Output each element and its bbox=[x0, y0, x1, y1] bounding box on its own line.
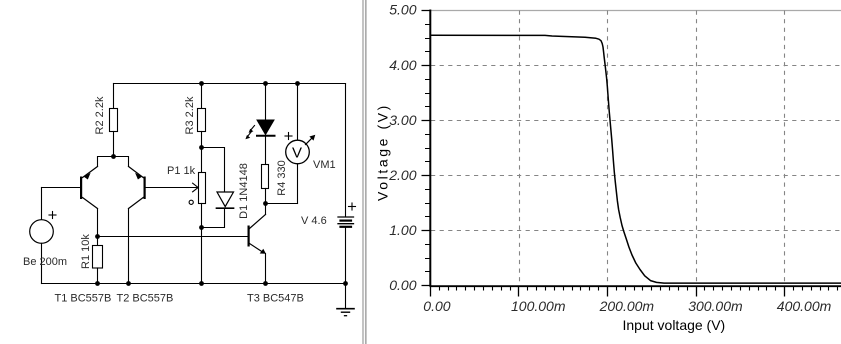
wire R2 bottom lead bbox=[113, 132, 115, 157]
x tick labels bbox=[423, 298, 831, 314]
svg-text:P1 1k: P1 1k bbox=[167, 165, 196, 177]
wire emitter link bbox=[98, 157, 129, 167]
svg-text:400.00m: 400.00m bbox=[777, 298, 832, 314]
svg-text:Voltage (V): Voltage (V) bbox=[375, 103, 391, 201]
transistor T1 bbox=[80, 167, 98, 209]
battery V 4.6 bbox=[301, 84, 356, 284]
ground bbox=[337, 284, 354, 316]
node P1/D1 bottom bbox=[199, 225, 204, 230]
node rail T2 collector bbox=[126, 281, 131, 286]
svg-text:VM1: VM1 bbox=[313, 159, 336, 171]
svg-text:0.00: 0.00 bbox=[389, 277, 416, 293]
LED D2 bbox=[245, 84, 274, 140]
transfer curve bbox=[431, 35, 841, 283]
panel divider bbox=[362, 0, 364, 344]
node R3 bottom / P1 / D1 bbox=[199, 145, 204, 150]
dashed vertical gridlines 100m..400m bbox=[520, 11, 785, 286]
svg-text:2.00: 2.00 bbox=[388, 167, 416, 183]
resistor R4 bbox=[262, 136, 289, 204]
potentiometer P1 bbox=[167, 148, 206, 228]
svg-text:R3 2.2k: R3 2.2k bbox=[184, 96, 196, 134]
svg-text:300.00m: 300.00m bbox=[688, 298, 743, 314]
svg-text:V 4.6: V 4.6 bbox=[301, 215, 327, 227]
svg-text:3.00: 3.00 bbox=[389, 112, 416, 128]
wire R2 top lead bbox=[113, 84, 115, 109]
wire D1 bottom link bbox=[202, 209, 225, 228]
wire ground rail bbox=[42, 283, 346, 285]
svg-text:5.00: 5.00 bbox=[389, 2, 416, 18]
node top rail to R3 bbox=[199, 81, 204, 86]
svg-text:1.00: 1.00 bbox=[389, 222, 416, 238]
wire T1 collector to node bbox=[97, 209, 99, 237]
resistor R2 bbox=[94, 96, 118, 134]
wire T3 base line bbox=[98, 236, 248, 238]
diode D1 bbox=[217, 163, 251, 219]
wire T2 collector to ground rail bbox=[128, 209, 130, 284]
node battery / ground rail bbox=[343, 281, 348, 286]
svg-text:4.00: 4.00 bbox=[389, 57, 416, 73]
svg-text:T3 BC547B: T3 BC547B bbox=[247, 293, 304, 305]
node emitter junction of T1/T2 bbox=[111, 154, 116, 159]
wire VM1 bottom link bbox=[266, 203, 298, 205]
wire top supply rail bbox=[114, 83, 346, 85]
svg-text:Be 200m: Be 200m bbox=[23, 256, 67, 268]
label T1 bbox=[55, 293, 112, 305]
X axis bbox=[430, 285, 841, 287]
resistor R1 bbox=[80, 234, 103, 284]
node rail R1 bbox=[95, 281, 100, 286]
svg-text:R2 2.2k: R2 2.2k bbox=[94, 96, 106, 134]
svg-text:T1 BC557B: T1 BC557B bbox=[55, 293, 112, 305]
node rail P1/D1 bbox=[199, 281, 204, 286]
wire T2 base to P1 wiper bbox=[146, 183, 199, 192]
node T1 collector / R1 / T3 base bbox=[95, 234, 100, 239]
transistor T3 bbox=[248, 204, 266, 284]
node top rail to LED bbox=[263, 81, 268, 86]
node R4 / VM1 / T3 collector bbox=[263, 201, 268, 206]
svg-text:100.00m: 100.00m bbox=[511, 298, 566, 314]
svg-text:Input voltage (V): Input voltage (V) bbox=[623, 317, 726, 333]
node top rail to VM1 bbox=[295, 81, 300, 86]
svg-text:0.00: 0.00 bbox=[423, 298, 450, 314]
svg-text:T2 BC557B: T2 BC557B bbox=[117, 293, 174, 305]
resistor R3 bbox=[184, 84, 206, 148]
voltmeter VM1 bbox=[285, 84, 336, 204]
label T3 bbox=[247, 293, 304, 305]
transistor T2 bbox=[129, 167, 146, 209]
wire P1 node to ground rail bbox=[201, 228, 203, 284]
5.00 top gridline (solid gray) bbox=[431, 10, 841, 12]
dashed horizontal gridlines 4.00..1.00 bbox=[431, 66, 841, 231]
svg-text:R1 10k: R1 10k bbox=[80, 234, 92, 269]
svg-text:R4 330: R4 330 bbox=[276, 160, 288, 195]
Y axis bbox=[429, 10, 431, 287]
label T2 bbox=[117, 293, 174, 305]
svg-text:V: V bbox=[292, 145, 302, 162]
wire T1 base lead bbox=[42, 187, 81, 189]
y tick labels bbox=[388, 2, 416, 293]
svg-text:200.00m: 200.00m bbox=[599, 298, 655, 314]
source Be 200m bbox=[23, 188, 67, 284]
node rail T3 emitter bbox=[263, 281, 268, 286]
wire D1 top link bbox=[202, 148, 225, 193]
svg-text:D1 1N4148: D1 1N4148 bbox=[238, 163, 250, 219]
